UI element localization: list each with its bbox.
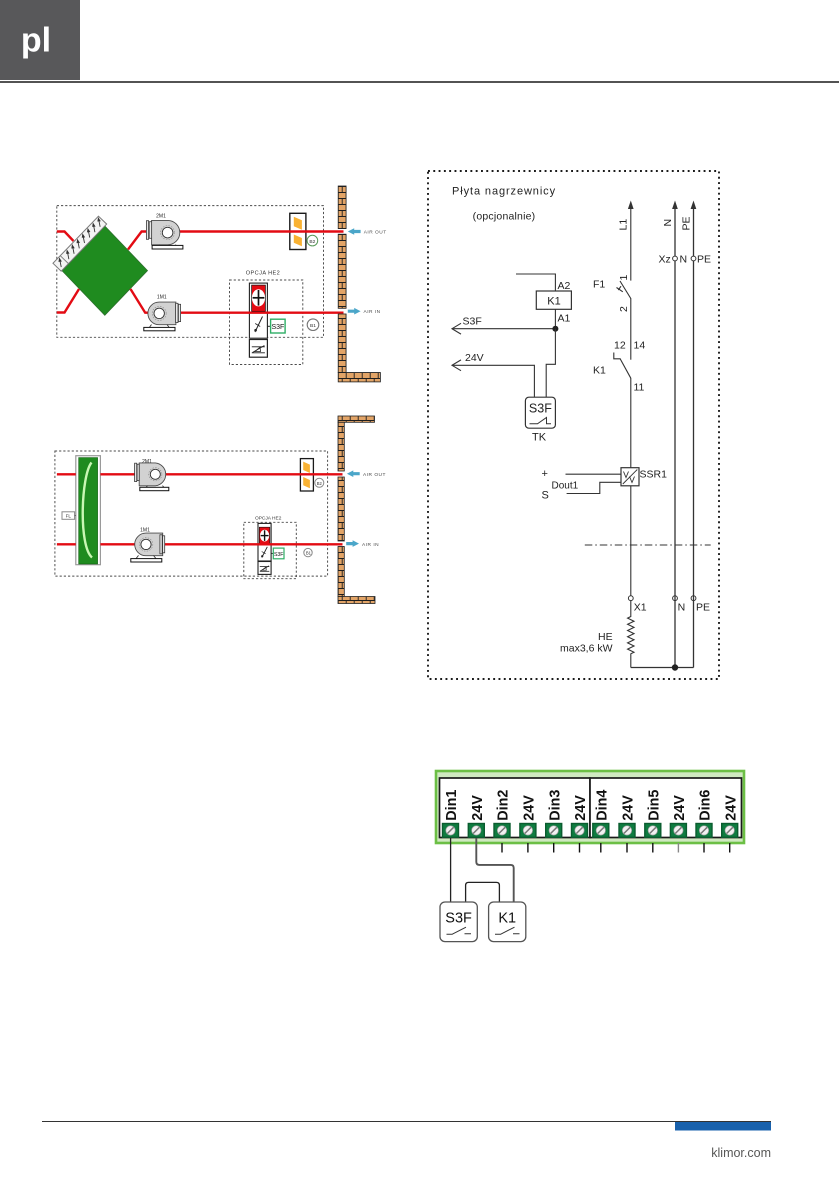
damper blade lower (303, 477, 310, 488)
terminal screw 24V a (468, 824, 484, 838)
thermal cutout S3F/TK box (525, 397, 555, 428)
supply duct left of wheel (bottom) (57, 543, 76, 545)
svg-text:2M1: 2M1 (156, 213, 166, 219)
svg-text:N: N (678, 602, 686, 614)
svg-text:pl: pl (21, 22, 51, 60)
controller board edge (green) (436, 771, 744, 843)
fan 2M1 (135, 463, 169, 491)
sensor B1 (307, 319, 319, 331)
electric heater stack (258, 523, 271, 561)
exhaust duct left of wheel (top) (57, 473, 76, 475)
svg-text:Din4: Din4 (594, 790, 610, 821)
wall segment B (338, 477, 344, 541)
wall bottom flange (338, 597, 375, 604)
wire PE bottom drop (693, 596, 695, 668)
wire N bottom drop (674, 596, 676, 668)
svg-text:1M1: 1M1 (140, 528, 150, 534)
damper box (supply to wall) (290, 213, 306, 249)
fresh air duct bottom left (57, 289, 79, 313)
svg-text:A1: A1 (558, 313, 571, 325)
FL tag box (62, 512, 75, 520)
wire L1 vertical (top) (630, 206, 632, 281)
svg-text:X1: X1 (634, 602, 647, 614)
svg-text:24V: 24V (723, 795, 739, 821)
svg-text:Din3: Din3 (547, 790, 563, 821)
damper blade upper (303, 462, 310, 473)
wire coil to node A1 (554, 309, 556, 328)
svg-text:Dout1: Dout1 (552, 481, 579, 492)
exhaust duct fan 2M1 to wall (178, 230, 344, 232)
wall upper segment (338, 186, 346, 229)
svg-text:2M1: 2M1 (142, 459, 152, 465)
terminal screw Din1 (443, 824, 459, 838)
sensor B2 (307, 235, 318, 246)
wire Dout1 plus to SSR1 (566, 473, 622, 475)
terminal PE (bottom) (691, 596, 696, 601)
terminal screw Din2 (494, 824, 510, 838)
svg-text:OPCJA HE2: OPCJA HE2 (255, 515, 282, 521)
svg-text:B1: B1 (310, 323, 316, 329)
wall lower segment (338, 314, 346, 373)
svg-text:Din6: Din6 (698, 790, 714, 821)
svg-text:+: + (542, 468, 548, 480)
svg-text:2: 2 (618, 306, 630, 312)
node A1 junction (552, 326, 558, 332)
svg-text:B1: B1 (306, 550, 312, 555)
svg-text:K1: K1 (547, 296, 560, 308)
heater board border (dotted) (428, 171, 719, 679)
arrow AIR OUT (347, 470, 360, 477)
svg-text:N: N (662, 219, 674, 227)
heater option enclosure OPCJA HE2 (dashed) (244, 522, 296, 578)
svg-text:L1: L1 (618, 219, 630, 231)
exhaust duct fan 2M1 to wall (165, 473, 343, 475)
junction on N (672, 664, 678, 670)
supply duct wheel to fan 1M1 (100, 543, 137, 545)
board boundary (dash-dot) (585, 544, 711, 546)
arrow AIR IN (346, 540, 359, 547)
wire 24V to K1 (476, 838, 513, 902)
arrow AIR OUT (348, 228, 361, 235)
AHU unit casing (dashed) (57, 206, 324, 338)
heater stack lower box (actuator symbol) (258, 562, 271, 575)
arrow L1 (628, 201, 634, 210)
svg-text:OPCJA HE2: OPCJA HE2 (246, 271, 280, 277)
terminal screw 24V c (572, 824, 588, 838)
wire HE return (bottom bus) (631, 667, 694, 669)
svg-text:24V: 24V (465, 352, 484, 364)
contact K1 (NO) (614, 353, 631, 379)
svg-text:AIR IN: AIR IN (364, 309, 381, 315)
svg-text:Xz: Xz (659, 254, 671, 266)
svg-text:A2: A2 (558, 280, 571, 292)
wire to S3F sensor tag (267, 325, 270, 327)
svg-text:AIR IN: AIR IN (362, 542, 379, 548)
svg-text:1: 1 (618, 275, 630, 281)
terminal screw 24V f (722, 824, 738, 838)
supply duct fan 1M1 through heater to wall (161, 543, 343, 545)
AHU unit casing (dashed) (55, 451, 328, 576)
footer accent bar (675, 1122, 771, 1131)
terminal screw 24V d (619, 824, 635, 838)
terminal screw Din6 (696, 824, 712, 838)
svg-text:Din2: Din2 (496, 790, 512, 821)
terminal N (bottom) (673, 596, 678, 601)
svg-text:S3F: S3F (529, 402, 552, 416)
cross-flow heat exchanger (green diamond) (62, 226, 148, 315)
svg-text:S3F: S3F (445, 911, 472, 927)
heater stack lower box (actuator symbol) (249, 340, 267, 358)
page header bar (0, 0, 80, 80)
terminal screw 24V e (670, 824, 686, 838)
wall middle segment (338, 234, 346, 308)
fuse F1 (617, 281, 631, 299)
svg-text:max3,6 kW: max3,6 kW (560, 643, 613, 655)
svg-text:Din5: Din5 (646, 790, 662, 821)
svg-text:HE: HE (598, 631, 613, 643)
terminal pins (502, 843, 730, 853)
header rule (0, 81, 839, 83)
terminal screw 24V b (520, 824, 536, 838)
terminal X1 (628, 596, 633, 601)
svg-text:K1: K1 (498, 911, 516, 927)
wire contact to SSR1 (630, 378, 632, 468)
svg-text:24V: 24V (522, 795, 538, 821)
terminal screw Din5 (645, 824, 661, 838)
fan 1M1 (131, 533, 165, 562)
arrow AIR IN (348, 308, 361, 315)
exhaust duct from wall side (top left) (57, 232, 74, 242)
supply duct exchanger to fan 1M1 (131, 289, 151, 313)
switch box K1 (489, 902, 526, 942)
wall foot (338, 373, 380, 382)
terminal Xz on N (673, 256, 678, 261)
svg-text:AIR OUT: AIR OUT (364, 229, 387, 235)
damper blade upper (294, 217, 302, 230)
svg-text:TK: TK (532, 432, 547, 444)
wall segment A (338, 422, 344, 471)
svg-text:B2: B2 (309, 239, 315, 245)
wire SSR1 to X1 (630, 486, 632, 596)
svg-text:PE: PE (681, 216, 693, 230)
svg-text:S3F: S3F (274, 552, 284, 558)
svg-text:24V: 24V (573, 795, 589, 821)
svg-text:1M1: 1M1 (157, 295, 167, 301)
supply duct fan 1M1 through heater to wall (178, 312, 344, 314)
svg-text:24V: 24V (672, 795, 688, 821)
terminal screw Din4 (593, 824, 609, 838)
svg-text:F1: F1 (593, 279, 605, 291)
terminal screw Din3 (546, 824, 562, 838)
arrow S3F (452, 323, 461, 334)
exhaust duct wheel to fan 2M1 (100, 473, 146, 475)
arrow PE (691, 201, 697, 210)
exhaust duct exchanger to fan 2M1 (128, 232, 148, 250)
wire stub above coil (516, 274, 555, 291)
svg-text:24V: 24V (470, 795, 486, 821)
svg-text:S3F: S3F (271, 324, 284, 331)
wire Dout1 S to SSR1 (567, 482, 621, 493)
S3F sensor tag (green box) (271, 319, 286, 333)
svg-text:B2: B2 (317, 481, 323, 486)
relay coil K1 (536, 291, 571, 309)
svg-text:FL: FL (66, 513, 72, 518)
arrow N (672, 201, 678, 210)
svg-text:AIR OUT: AIR OUT (363, 472, 386, 478)
wire F1 to K1 contact (630, 298, 632, 360)
svg-text:S: S (542, 490, 549, 502)
svg-text:PE: PE (696, 602, 710, 614)
filter band on exchanger inlet (53, 216, 107, 271)
switch box S3F (440, 902, 477, 942)
solid state relay SSR1 (621, 468, 639, 486)
footer rule (42, 1121, 771, 1123)
svg-text:Din1: Din1 (444, 790, 460, 821)
svg-text:N: N (680, 254, 688, 266)
wire 24V output (453, 365, 535, 397)
svg-text:SSR1: SSR1 (640, 469, 668, 481)
svg-text:14: 14 (634, 340, 646, 352)
svg-text:klimor.com: klimor.com (711, 1146, 771, 1160)
wall top flange (338, 416, 375, 422)
rotary heat exchanger wheel (green) (79, 458, 98, 564)
svg-text:Płyta nagrzewnicy: Płyta nagrzewnicy (452, 186, 556, 198)
svg-text:11: 11 (634, 382, 645, 394)
wire S3F output (453, 328, 556, 330)
wheel highlight arc (83, 463, 92, 558)
terminal group 2 housing (590, 778, 742, 838)
fan 1M1 (144, 302, 181, 331)
wire Din1 to S3F (450, 838, 452, 902)
S3F sensor tag (green box) (273, 548, 284, 559)
arrow 24V (452, 360, 461, 371)
svg-text:K1: K1 (593, 365, 606, 377)
wire N vertical (674, 206, 676, 596)
terminal Xz on PE (691, 256, 696, 261)
svg-text:24V: 24V (621, 795, 637, 821)
svg-text:12: 12 (614, 340, 626, 352)
wall segment C (338, 547, 344, 597)
svg-text:(opcjonalnie): (opcjonalnie) (473, 211, 536, 223)
heater option enclosure OPCJA HE2 (dashed) (230, 280, 303, 365)
fan 2M1 (146, 220, 183, 249)
sensor B1 (304, 548, 312, 556)
heater element HE (resistor) (628, 600, 634, 667)
damper box (300, 459, 313, 491)
damper blade lower (294, 235, 302, 247)
terminal pin gray (677, 843, 679, 853)
wire S3F to K1 bridge (466, 882, 500, 902)
svg-text:S3F: S3F (463, 316, 482, 328)
sensor B2 (315, 478, 324, 487)
wire PE vertical (693, 206, 695, 596)
wire node to TK box (546, 329, 555, 398)
terminal group 1 housing (440, 778, 591, 838)
rotary heat exchanger casing (76, 456, 101, 565)
electric heater stack (upper rect with red heater + sensor) (249, 283, 267, 338)
wire to S3F sensor tag (271, 552, 273, 554)
svg-text:PE: PE (697, 254, 711, 266)
